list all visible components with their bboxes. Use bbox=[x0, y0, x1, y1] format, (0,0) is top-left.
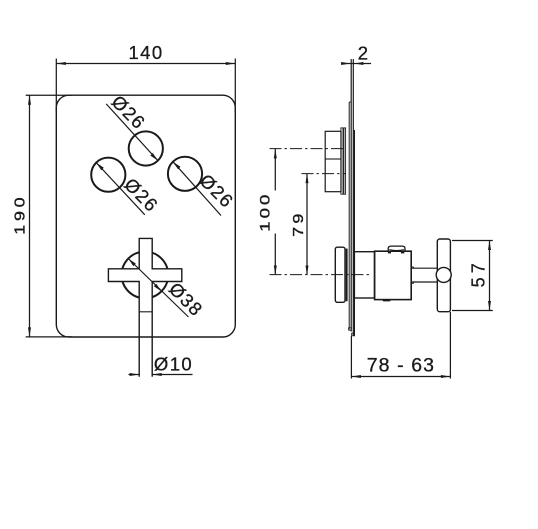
svg-text:78 - 63: 78 - 63 bbox=[367, 355, 435, 377]
svg-text:57: 57 bbox=[469, 259, 489, 287]
svg-text:79: 79 bbox=[290, 210, 307, 237]
svg-text:100: 100 bbox=[258, 192, 273, 232]
svg-text:140: 140 bbox=[128, 42, 163, 63]
svg-text:190: 190 bbox=[13, 194, 29, 235]
svg-text:2: 2 bbox=[358, 43, 370, 64]
svg-text:Ø10: Ø10 bbox=[154, 354, 193, 375]
